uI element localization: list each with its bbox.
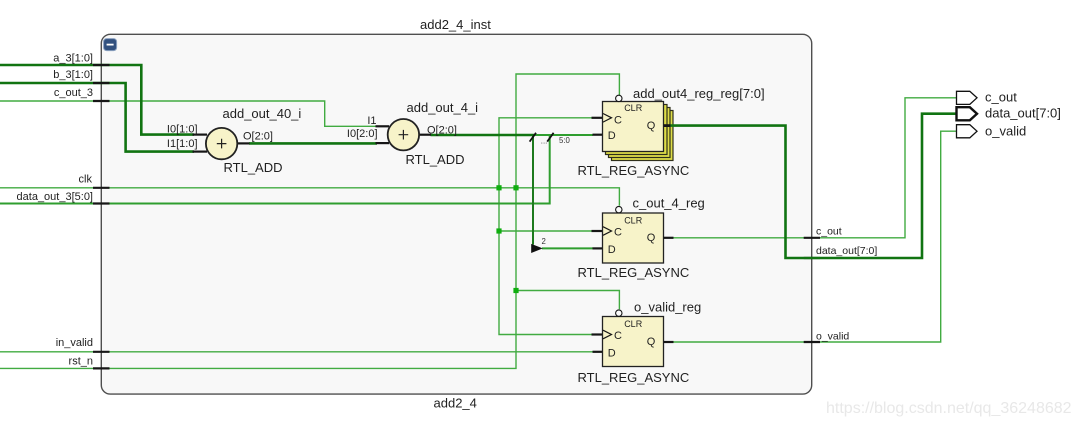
svg-text:I1[1:0]: I1[1:0] [167, 138, 198, 150]
svg-text:...: ... [541, 137, 548, 146]
svg-text:add_out4_reg_reg[7:0]: add_out4_reg_reg[7:0] [633, 86, 765, 101]
svg-text:RTL_ADD: RTL_ADD [224, 160, 283, 175]
svg-text:add_out_4_i: add_out_4_i [407, 100, 479, 115]
svg-text:in_valid: in_valid [56, 337, 93, 349]
svg-text:2: 2 [542, 237, 546, 246]
svg-text:D: D [608, 130, 616, 142]
svg-text:RTL_REG_ASYNC: RTL_REG_ASYNC [578, 370, 690, 385]
svg-text:o_valid_reg: o_valid_reg [634, 300, 701, 315]
svg-text:5:0: 5:0 [559, 136, 571, 145]
svg-text:add_out_40_i: add_out_40_i [223, 106, 302, 121]
svg-text:I0[2:0]: I0[2:0] [347, 128, 378, 140]
svg-text:O[2:0]: O[2:0] [243, 130, 273, 142]
svg-text:D: D [608, 244, 616, 256]
svg-text:Q: Q [647, 232, 656, 244]
svg-text:RTL_REG_ASYNC: RTL_REG_ASYNC [578, 265, 690, 280]
svg-text:a_3[1:0]: a_3[1:0] [53, 53, 93, 65]
svg-text:O[2:0]: O[2:0] [427, 124, 457, 136]
svg-text:I1: I1 [367, 115, 376, 127]
svg-text:CLR: CLR [624, 319, 643, 329]
svg-text:clk: clk [79, 174, 93, 186]
svg-text:C: C [614, 330, 622, 342]
svg-text:c_out: c_out [816, 225, 842, 237]
svg-text:c_out_3: c_out_3 [54, 87, 93, 99]
svg-text:data_out_3[5:0]: data_out_3[5:0] [17, 191, 93, 203]
svg-text:CLR: CLR [624, 216, 643, 226]
svg-text:add2_4: add2_4 [434, 396, 477, 411]
svg-text:data_out[7:0]: data_out[7:0] [816, 245, 877, 257]
svg-text:c_out_4_reg: c_out_4_reg [633, 196, 705, 211]
svg-text:RTL_REG_ASYNC: RTL_REG_ASYNC [578, 163, 690, 178]
svg-text:rst_n: rst_n [69, 356, 93, 368]
svg-text:Q: Q [647, 336, 656, 348]
svg-text:C: C [614, 114, 622, 126]
svg-text:RTL_ADD: RTL_ADD [406, 152, 465, 167]
svg-text:C: C [614, 226, 622, 238]
svg-text:https://blog.csdn.net/qq_36248: https://blog.csdn.net/qq_36248682 [826, 400, 1072, 417]
svg-text:o_valid: o_valid [985, 124, 1026, 139]
svg-text:CLR: CLR [624, 103, 643, 113]
svg-text:b_3[1:0]: b_3[1:0] [53, 69, 93, 81]
svg-text:c_out: c_out [985, 90, 1017, 105]
svg-text:D: D [608, 347, 616, 359]
svg-text:data_out[7:0]: data_out[7:0] [985, 106, 1061, 121]
svg-text:o_valid: o_valid [816, 330, 849, 342]
svg-text:I0[1:0]: I0[1:0] [167, 124, 198, 136]
svg-text:Q: Q [647, 120, 656, 132]
svg-text:add2_4_inst: add2_4_inst [420, 17, 491, 32]
